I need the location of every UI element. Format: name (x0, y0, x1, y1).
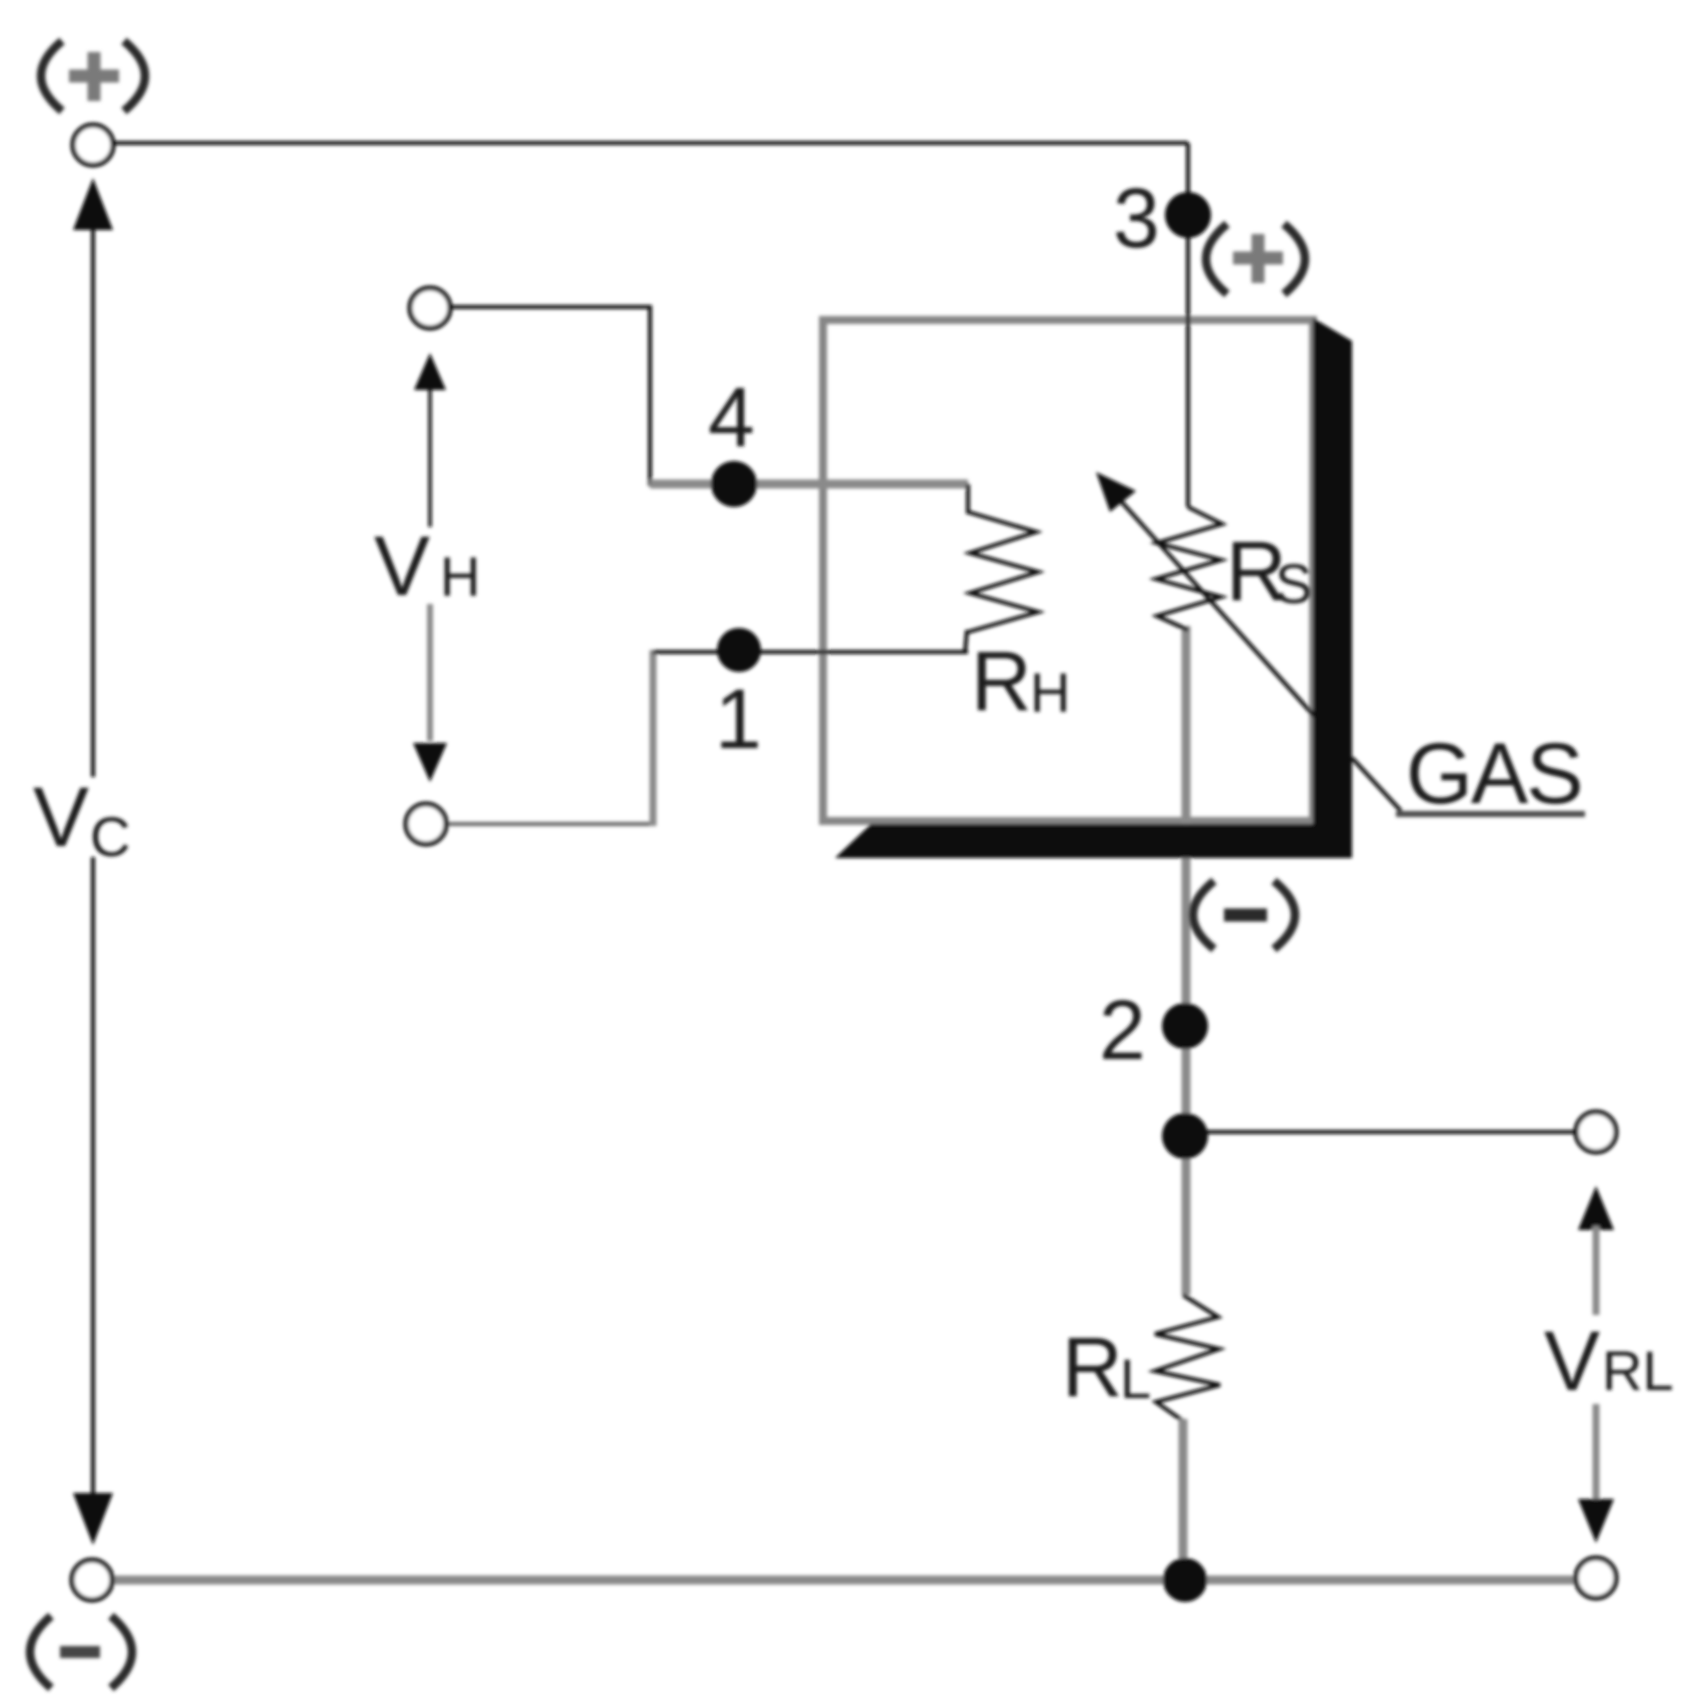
svg-text:V: V (1544, 1314, 1600, 1408)
resistor RH bottom connector (965, 630, 967, 653)
wire node 1 horizontal (653, 650, 968, 654)
label (+) top-left (41, 41, 145, 111)
wire from heater top terminal to node 4 (450, 307, 650, 486)
svg-text:4: 4 (708, 370, 755, 464)
wire RL bottom to bottom rail (1179, 1419, 1188, 1580)
svg-text:R: R (1062, 1320, 1123, 1414)
svg-text:2: 2 (1099, 983, 1146, 1077)
svg-text:S: S (1275, 552, 1312, 615)
resistor RH step connector (966, 484, 970, 514)
svg-text:C: C (90, 805, 130, 868)
node 2 (1162, 1003, 1208, 1049)
svg-text:H: H (1030, 661, 1070, 724)
node 3 (1165, 192, 1211, 238)
terminal heater top (Vh+) (410, 288, 450, 328)
sensor box outline (823, 320, 1313, 821)
node 1 (717, 628, 761, 672)
svg-text:GAS: GAS (1406, 726, 1582, 822)
label (-) bottom-left (30, 1616, 132, 1688)
arrow Vh double-headed (413, 353, 447, 782)
node 4 (711, 461, 757, 507)
wire junction to VRL terminal (1185, 1130, 1578, 1134)
sensor box thick black shadow bar (835, 318, 1352, 858)
wire top horizontal from (+) supply to node 3 (93, 141, 1188, 145)
resistor Rs zigzag (variable sensing resistor) (1156, 507, 1222, 630)
svg-text:3: 3 (1113, 171, 1160, 265)
terminal VRL top (1576, 1112, 1616, 1152)
arrow VRL double-headed (1578, 1186, 1614, 1543)
GAS leader line (1352, 758, 1401, 811)
svg-text:L: L (1120, 1347, 1151, 1410)
wire heater bottom terminal to node 1 corner (446, 822, 655, 826)
resistor RL zigzag (1155, 1295, 1220, 1421)
terminal heater bottom (Vh-) (406, 804, 446, 844)
svg-text:R: R (971, 634, 1032, 728)
wire Rs lower vertical (gray) through box bottom to node 2 and RL top (1182, 626, 1191, 1295)
terminal (-) bottom-left (72, 1560, 112, 1600)
terminal VRL bottom (1576, 1558, 1616, 1598)
terminal (+) top-left (73, 125, 113, 165)
resistor RH zigzag (968, 512, 1038, 632)
GAS underline (1396, 811, 1585, 817)
node junction bottom rail (1163, 1558, 1207, 1602)
svg-text:1: 1 (715, 672, 762, 766)
svg-text:V: V (33, 770, 89, 864)
label (+) at node 3 (1206, 224, 1305, 294)
arrow Vc double-headed (73, 178, 113, 1545)
junction node to VRL tap (1162, 1113, 1208, 1159)
wire bottom horizontal (92, 1576, 1596, 1585)
wire vertical from top wire through node 3 to Rs top (1186, 143, 1190, 507)
svg-text:H: H (440, 545, 480, 608)
wire vertical gray up to node 1 (650, 650, 657, 826)
svg-text:RL: RL (1602, 1339, 1674, 1402)
wire node 4 horizontal (gray) (650, 480, 968, 489)
label (-) below sensor box (1193, 881, 1295, 949)
svg-text:V: V (374, 519, 430, 613)
arrow over Rs (variable) (1110, 489, 1316, 718)
